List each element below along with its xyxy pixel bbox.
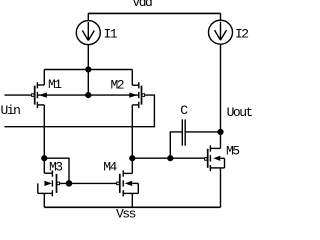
wire M2 source down <box>131 105 133 158</box>
current source I2 <box>209 20 233 44</box>
wire M1 source down <box>43 105 45 158</box>
node stage1 output junction <box>129 155 135 161</box>
wire M4 source to Vss <box>131 193 133 207</box>
node M3 gate junction <box>66 180 73 187</box>
node M1-M3 junction <box>41 155 47 161</box>
wire input upper (Uin to M1 gate) <box>5 94 32 96</box>
svg-text:M5: M5 <box>226 144 239 159</box>
current source I1 <box>76 21 100 45</box>
wire M4 drain up <box>131 158 133 173</box>
wire diff-pair drain line <box>44 69 132 71</box>
wire Vdd rail <box>88 12 220 14</box>
wire M5 source to Vss <box>220 168 222 207</box>
svg-text:Vdd: Vdd <box>132 0 152 10</box>
transistor M1 <box>32 82 47 108</box>
node capacitor branch junction <box>167 155 173 161</box>
svg-text:M2: M2 <box>111 77 124 92</box>
wire M3-M4 gate line <box>60 182 116 184</box>
wire input lower (Uin to M2 gate) <box>5 95 155 127</box>
wire M3 source to Vss <box>43 193 45 207</box>
wire capacitor left branch <box>170 132 182 158</box>
transistor M3 <box>38 170 60 196</box>
wire M3 drain down <box>43 158 45 173</box>
wire I2 to M5 drain <box>220 44 222 148</box>
svg-text:M3: M3 <box>49 160 62 175</box>
node tail junction lower <box>85 92 91 98</box>
svg-text:I1: I1 <box>104 26 118 41</box>
wire rail to I2 <box>220 13 222 20</box>
node output junction <box>217 129 223 135</box>
transistor M2 <box>129 82 144 108</box>
wire M3 diode connection <box>44 158 69 183</box>
wire stage1 output to M5 gate <box>132 157 204 159</box>
wire M2 drain up <box>131 70 133 86</box>
svg-text:M4: M4 <box>103 160 117 175</box>
svg-text:Uin: Uin <box>1 103 21 118</box>
wire rail to I1 <box>87 13 89 20</box>
svg-text:M1: M1 <box>48 77 62 92</box>
wire capacitor right to output <box>185 131 220 133</box>
transistor M4 <box>117 170 139 196</box>
node tail junction upper <box>85 66 91 72</box>
wire bulk line M1-M2 <box>37 94 138 96</box>
wire Vss rail <box>44 206 220 208</box>
svg-text:I2: I2 <box>235 26 248 41</box>
svg-text:Vss: Vss <box>116 206 136 218</box>
svg-text:C: C <box>180 103 188 118</box>
wire I1 to tail node <box>87 45 89 96</box>
transistor M5 <box>205 145 225 171</box>
svg-text:Uout: Uout <box>227 105 253 120</box>
wire M1 drain up <box>43 70 45 86</box>
capacitor C <box>182 119 185 145</box>
